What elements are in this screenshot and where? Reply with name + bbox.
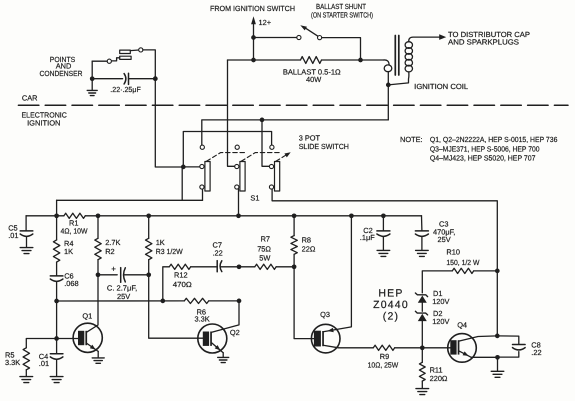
wire node down to bus A <box>181 167 183 200</box>
ignition coil secondary winding <box>405 42 412 49</box>
node C6/R6 line <box>54 299 59 304</box>
svg-text:.22·.25μF: .22·.25μF <box>110 85 141 94</box>
node ballast right <box>358 58 363 63</box>
svg-text:150, 1/2 W: 150, 1/2 W <box>446 258 479 267</box>
svg-text:.01: .01 <box>8 231 18 240</box>
svg-text:R8: R8 <box>302 235 311 244</box>
node bus/R8 <box>292 213 297 218</box>
svg-text:.1μF: .1μF <box>360 233 375 242</box>
breaker points upper contact <box>120 50 131 53</box>
node C left <box>96 272 101 277</box>
svg-text:AND SPARKPLUGS: AND SPARKPLUGS <box>448 37 519 46</box>
wire node down to slider3 <box>262 120 270 166</box>
node R12 drop <box>160 299 165 304</box>
node Q1 base <box>54 336 59 341</box>
capacitor C8 <box>497 336 519 344</box>
ignition coil primary winding <box>384 60 390 65</box>
wire ballast rail <box>228 59 301 61</box>
capacitor C3 <box>421 216 423 231</box>
wire bus A <box>57 199 203 201</box>
node bus/C2 <box>381 213 386 218</box>
svg-text:R7: R7 <box>261 234 270 243</box>
node S1 input left <box>181 165 186 170</box>
svg-text:R2: R2 <box>105 247 114 256</box>
capacitor C2 <box>382 216 384 231</box>
svg-text:(ON STARTER SWITCH): (ON STARTER SWITCH) <box>311 11 373 20</box>
wire points left down <box>91 61 93 78</box>
capacitor .22-.25uF (condenser) <box>92 78 122 80</box>
wire slider3 lower to right vertical <box>272 189 497 336</box>
svg-text:120V: 120V <box>432 297 449 306</box>
resistor R10 <box>422 271 452 293</box>
wire slider2 lower to bus B <box>238 189 240 216</box>
node bus/R3 <box>146 213 151 218</box>
svg-text:.22: .22 <box>213 248 223 257</box>
resistor R8 <box>293 216 295 236</box>
svg-text:25V: 25V <box>117 292 130 301</box>
diode D1 (zener 120V) <box>415 293 427 297</box>
node: 12+/shunt junction <box>251 35 256 40</box>
svg-text:22Ω: 22Ω <box>302 244 316 253</box>
wire cross line (y=131.5) <box>183 132 271 165</box>
resistor R7 <box>239 266 255 268</box>
svg-text:IGNITION: IGNITION <box>27 119 60 128</box>
ground (C4) <box>50 376 63 378</box>
ground (points) <box>91 79 93 90</box>
svg-text:SLIDE SWITCH: SLIDE SWITCH <box>299 142 349 151</box>
wire Q4 emitter <box>459 351 471 357</box>
resistor R9 <box>373 345 394 350</box>
node condenser right <box>153 76 158 81</box>
svg-text:Z0440: Z0440 <box>373 299 409 311</box>
svg-text:Q1, Q2–2N2222A, HEP S-0015, HE: Q1, Q2–2N2222A, HEP S-0015, HEP 736 <box>430 135 557 144</box>
wire shunt left <box>254 37 297 39</box>
svg-text:CONDENSER: CONDENSER <box>40 69 83 78</box>
svg-text:Q3: Q3 <box>320 310 330 319</box>
wire condenser node down to S1 <box>155 79 181 167</box>
wire slider1 lower to bus A <box>202 189 204 200</box>
wire Q3 emitter up to bus <box>324 216 352 332</box>
breaker points lower contact <box>120 56 131 59</box>
ground (Q4 emitter) <box>497 357 499 370</box>
node R10 right <box>495 269 500 274</box>
transistor Q2 <box>198 324 227 353</box>
resistor R5 <box>26 339 56 348</box>
svg-text:40W: 40W <box>306 75 321 84</box>
diode D2 (zener 120V) <box>415 311 427 315</box>
node Q4 collector/right line <box>495 334 500 339</box>
ground (Q1 emitter) <box>97 351 99 357</box>
svg-text:120V: 120V <box>432 317 449 326</box>
svg-text:4Ω, 10W: 4Ω, 10W <box>61 227 88 236</box>
node R6/C7/collector <box>237 299 242 304</box>
resistor R3 <box>148 216 150 239</box>
ground (C3) <box>416 249 429 251</box>
node C right <box>146 272 151 277</box>
svg-text:Q4: Q4 <box>457 320 467 329</box>
resistor R11 <box>421 348 423 363</box>
switch S1 pole 3 <box>270 145 274 149</box>
svg-text:IGNITION COIL: IGNITION COIL <box>414 82 468 91</box>
arrow to distributor <box>439 34 446 40</box>
ballast shunt switch (on starter switch) <box>297 35 301 39</box>
node R7/R8 <box>292 264 297 269</box>
wire Q3 collector to R9 <box>324 345 373 347</box>
capacitor C5 <box>25 216 27 231</box>
svg-text:Q3–MJE371, HEP S-5006, HEP 700: Q3–MJE371, HEP S-5006, HEP 700 <box>430 145 540 154</box>
node C7/R7 <box>237 264 242 269</box>
svg-text:Q1: Q1 <box>82 312 92 321</box>
wire: coil feed line (y=120) <box>202 120 388 145</box>
wire R3 node down to Q2 base <box>149 275 203 338</box>
svg-text:1K: 1K <box>64 247 73 256</box>
svg-text:R10: R10 <box>446 248 460 257</box>
svg-text:470Ω: 470Ω <box>173 280 193 289</box>
transistor Q3 <box>311 324 340 353</box>
transistor Q1 <box>73 323 102 352</box>
svg-text:25V: 25V <box>438 235 451 244</box>
svg-text:75Ω: 75Ω <box>257 244 271 253</box>
node Q4 emitter/ground <box>495 355 500 360</box>
wire Q4 collector <box>459 336 497 341</box>
svg-text:HEP: HEP <box>378 288 403 300</box>
capacitor C7 <box>216 261 218 272</box>
node points/condenser left <box>90 76 95 81</box>
ground (R5) <box>20 376 33 378</box>
svg-text:5W: 5W <box>259 253 270 262</box>
resistor R1 <box>64 213 85 218</box>
wire node to slider1 <box>183 166 199 168</box>
resistor BALLAST 0.5-1 ohm 40W <box>301 57 322 64</box>
ignition coil core <box>394 36 396 76</box>
svg-text:.01: .01 <box>39 359 49 368</box>
svg-text:R12: R12 <box>174 271 188 280</box>
12+ supply arrow <box>251 16 256 24</box>
svg-text:S1: S1 <box>250 193 259 202</box>
resistor R2 <box>97 216 99 239</box>
svg-text:.068: .068 <box>64 279 78 288</box>
node bus/S1 <box>236 213 241 218</box>
svg-text:(2): (2) <box>383 310 399 322</box>
svg-text:Q4–MJ423, HEP S5020, HEP 707: Q4–MJ423, HEP S5020, HEP 707 <box>430 154 536 163</box>
switch S1 pole 2 <box>235 145 239 149</box>
svg-text:CAR: CAR <box>22 93 38 102</box>
wire bus B <box>26 215 64 217</box>
car/electronic-ignition divider (dashed) <box>18 104 568 106</box>
wire shunt right <box>322 38 361 60</box>
resistor R4 <box>56 216 58 240</box>
node bus/R2 <box>96 213 101 218</box>
transistor Q4 <box>448 334 477 363</box>
wire R6 line <box>57 300 185 302</box>
node coil bottom <box>386 83 391 88</box>
capacitor C6 <box>50 275 63 277</box>
switch S1 pole 1 <box>200 145 204 149</box>
ground (R11) <box>416 388 429 390</box>
svg-text:220Ω: 220Ω <box>430 374 448 383</box>
svg-text:+: + <box>111 265 116 274</box>
ground (C2) <box>377 249 390 251</box>
wire coil bottom down <box>387 85 389 120</box>
svg-text:3.3K: 3.3K <box>5 358 20 367</box>
wire Q1 collector <box>87 275 98 332</box>
svg-text:3.3K: 3.3K <box>195 315 210 324</box>
wire R8 down to Q3 base <box>294 267 314 339</box>
node feed/slider3 branch <box>260 118 265 123</box>
wire ballast-left down to slider2 <box>228 60 235 166</box>
capacitor C 2.7uF 25V <box>98 274 117 276</box>
ground (C5) <box>20 247 33 249</box>
node bus/R4 <box>54 213 59 218</box>
svg-text:NOTE:: NOTE: <box>400 135 423 144</box>
svg-text:R3 1/2W: R3 1/2W <box>156 247 183 256</box>
node D2/R9/R11/Q4 base <box>420 345 425 350</box>
svg-text:10Ω, 25W: 10Ω, 25W <box>368 361 399 370</box>
resistor R6 <box>184 298 208 303</box>
svg-text:.22: .22 <box>531 348 541 357</box>
svg-text:R9: R9 <box>380 352 389 361</box>
node ballast left <box>251 58 256 63</box>
node bus/Q3 emitter <box>349 213 354 218</box>
wire Q2 collector <box>212 301 239 332</box>
svg-text:12+: 12+ <box>259 18 272 27</box>
resistor R12 <box>163 267 170 301</box>
ground (Q2 emitter) <box>222 353 224 357</box>
capacitor C4 <box>56 339 58 354</box>
S1 ganged linkage (dashed) <box>207 153 247 162</box>
svg-text:FROM IGNITION SWITCH: FROM IGNITION SWITCH <box>210 4 295 13</box>
svg-text:Q2: Q2 <box>230 328 240 337</box>
wire to Q4 base <box>422 347 450 349</box>
svg-text:R11: R11 <box>430 365 443 374</box>
